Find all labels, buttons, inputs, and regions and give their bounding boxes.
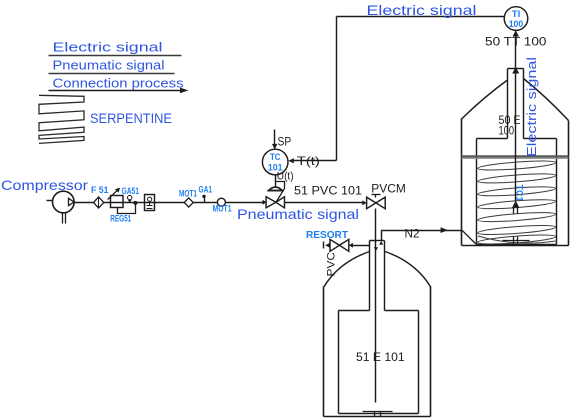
- gauge GA51 symbol: [128, 195, 132, 199]
- svg-text:TC1: TC1: [515, 185, 525, 202]
- svg-text:51 E 101: 51 E 101: [356, 350, 405, 364]
- tank 51E101 sparger: [363, 411, 393, 413]
- regulator REG51 body: [111, 196, 124, 208]
- legend: Connection process arrowhead: [180, 88, 188, 94]
- flow arrowhead into PVC101: [263, 200, 267, 205]
- svg-text:100: 100: [499, 126, 515, 138]
- transmitter TI100 circle: [504, 7, 528, 31]
- regulator REG51 arrow: [108, 188, 120, 199]
- svg-text:Pneumatic signal: Pneumatic signal: [53, 57, 165, 72]
- compressor outlet triangle: [69, 198, 75, 205]
- svg-text:Connection process: Connection process: [53, 75, 185, 90]
- svg-text:Electric signal: Electric signal: [367, 2, 477, 18]
- svg-text:F 51: F 51: [91, 185, 109, 196]
- arrowhead up at left tank neck: [379, 241, 383, 245]
- legend: Pneumatic signal line: [49, 73, 175, 75]
- sensor wire TI100 to tank: [515, 31, 517, 69]
- tank 50E100 drain sparger: [503, 240, 530, 242]
- liquid level line: [462, 155, 569, 157]
- svg-text:100: 100: [509, 19, 524, 30]
- controller TC101 circle: [262, 149, 288, 175]
- valve PVCM T handle: [375, 195, 377, 198]
- arrowhead up into TI100: [513, 31, 520, 37]
- main process line compressor to valve PVC101: [75, 202, 264, 204]
- valve PVC101 body: [266, 197, 276, 208]
- T(t) arrow into controller: [288, 158, 294, 163]
- MOT1 diamond: [184, 198, 193, 207]
- wire electric vertical left: [336, 17, 338, 161]
- svg-text:N2: N2: [405, 227, 420, 241]
- N2 branch line: [382, 231, 462, 241]
- svg-text:Compressor: Compressor: [1, 177, 88, 193]
- svg-text:PVCM: PVCM: [371, 182, 406, 196]
- compressor inlet stub: [47, 200, 53, 202]
- svg-text:Electric signal: Electric signal: [53, 40, 163, 55]
- arrowhead up at neck top: [512, 67, 519, 74]
- regulator feedback loop: [118, 203, 136, 214]
- feed line PVCM down into tank dip tube: [375, 209, 377, 403]
- wire electric top horizontal: [337, 16, 505, 18]
- svg-text:GA1: GA1: [199, 184, 213, 195]
- svg-text:MOT1: MOT1: [213, 204, 233, 215]
- sensor tip arrow: [512, 201, 519, 208]
- MOT1 circle element: [217, 198, 225, 206]
- svg-text:RESORT: RESORT: [306, 229, 349, 241]
- GA1 stem: [204, 197, 206, 203]
- wire T(t) horizontal: [294, 160, 337, 162]
- sensor dip tube: [515, 69, 517, 202]
- compressor legs: [62, 213, 64, 224]
- lubricator block: [145, 195, 155, 211]
- arrowhead into RESORT: [349, 243, 353, 248]
- tank 50E100 right shoulder: [524, 79, 569, 121]
- svg-text:T(t): T(t): [297, 154, 320, 168]
- SP arrowhead: [272, 144, 277, 150]
- filter F51 center line: [98, 197, 100, 209]
- tank 50E100 inner vessel: [476, 139, 478, 245]
- svg-text:U(t): U(t): [277, 171, 294, 183]
- tank 51E101 right shoulder: [385, 252, 431, 288]
- svg-text:PVC: PVC: [326, 252, 338, 277]
- tank 50E100 neck: [507, 69, 509, 139]
- svg-text:SP: SP: [278, 135, 292, 149]
- N2 arrowhead: [441, 227, 448, 233]
- legend: Connection process line: [49, 90, 181, 92]
- svg-text:50 TT 100: 50 TT 100: [485, 34, 547, 48]
- process line valve PVC101 to valve PVCM: [285, 202, 363, 204]
- arrowhead down inside left tank neck: [374, 247, 378, 251]
- compressor circle: [53, 191, 75, 213]
- svg-text:SERPENTINE: SERPENTINE: [90, 110, 172, 126]
- valve PVC101 actuator stem: [275, 175, 277, 188]
- valve PVC101 positioner flag: [276, 182, 285, 203]
- valve PVCM body: [367, 197, 376, 209]
- tank 50E100 outer bottom: [462, 245, 569, 247]
- tank 50E100 outer right wall: [568, 121, 570, 246]
- vent end bar: [323, 242, 325, 249]
- svg-text:Pneumatic signal: Pneumatic signal: [237, 206, 359, 222]
- tank 51E101 outer walls: [323, 287, 325, 417]
- svg-text:51 PVC 101: 51 PVC 101: [294, 183, 362, 197]
- wire RESORT to neck: [353, 245, 370, 247]
- serpentine coil in tank: [478, 159, 556, 172]
- tank 51E101 left shoulder: [324, 252, 370, 288]
- valve RESORT body: [330, 239, 339, 251]
- legend serpentine coil: [39, 95, 84, 143]
- svg-text:Electric signal: Electric signal: [525, 57, 539, 157]
- tank 51E101 neck: [370, 240, 385, 242]
- junction dot: [133, 201, 137, 205]
- tank 50E100 outer left wall: [461, 119, 463, 246]
- legend: Electric signal line: [49, 55, 182, 57]
- tank 50E100 left shoulder: [462, 80, 508, 119]
- controller TC101: SP line: [274, 130, 276, 146]
- flow arrowhead into PVCM: [362, 200, 366, 205]
- filter F51 diamond: [94, 197, 104, 208]
- valve PVC101 diaphragm dome: [269, 187, 283, 191]
- cone diagonal inside right tank: [462, 230, 476, 244]
- svg-text:TC: TC: [270, 152, 281, 163]
- vent arrowhead left: [325, 243, 330, 248]
- svg-text:REG51: REG51: [110, 214, 131, 225]
- tank 51E101 inner vessel: [338, 311, 340, 414]
